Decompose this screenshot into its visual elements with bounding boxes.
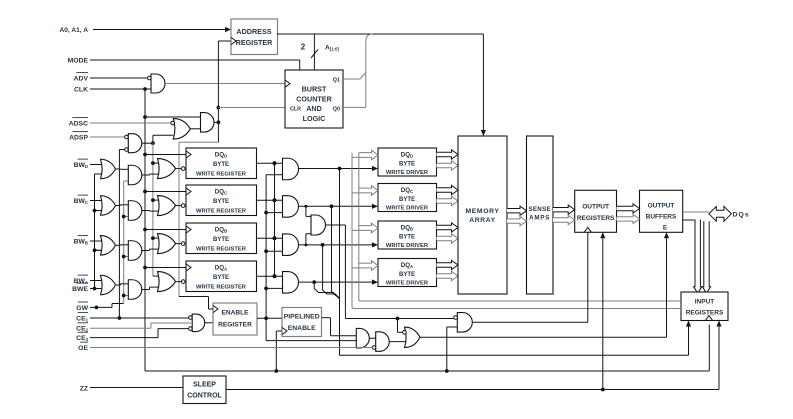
svg-text:MODE: MODE bbox=[68, 57, 89, 64]
svg-text:BYTE: BYTE bbox=[213, 199, 229, 205]
svg-text:AMPS: AMPS bbox=[529, 215, 550, 222]
svg-text:WRITE DRIVER: WRITE DRIVER bbox=[386, 281, 429, 287]
svg-text:CONTROL: CONTROL bbox=[187, 393, 222, 400]
svg-text:ADV: ADV bbox=[74, 75, 89, 82]
svg-text:DQD: DQD bbox=[401, 152, 413, 159]
svg-text:BWB: BWB bbox=[74, 238, 88, 245]
svg-text:PIPELINED: PIPELINED bbox=[284, 314, 320, 321]
svg-text:BYTE: BYTE bbox=[213, 275, 229, 281]
svg-text:CE3: CE3 bbox=[76, 335, 88, 342]
svg-text:DQC: DQC bbox=[401, 187, 414, 194]
svg-text:BYTE: BYTE bbox=[213, 162, 229, 168]
svg-text:BYTE: BYTE bbox=[213, 237, 229, 243]
svg-text:DQA: DQA bbox=[215, 265, 228, 272]
svg-text:CE1: CE1 bbox=[76, 315, 88, 322]
svg-text:Q1: Q1 bbox=[333, 78, 340, 84]
svg-text:BYTE: BYTE bbox=[399, 162, 415, 168]
svg-text:ADDRESS: ADDRESS bbox=[236, 27, 271, 36]
svg-text:OE: OE bbox=[78, 345, 88, 352]
svg-text:SENSE: SENSE bbox=[528, 206, 550, 213]
svg-text:ADSC: ADSC bbox=[69, 120, 88, 127]
svg-text:AND: AND bbox=[306, 104, 322, 113]
svg-text:BWE: BWE bbox=[72, 286, 88, 293]
svg-text:A0, A1, A: A0, A1, A bbox=[60, 27, 89, 34]
svg-text:MEMORY: MEMORY bbox=[466, 208, 500, 215]
svg-text:WRITE REGISTER: WRITE REGISTER bbox=[196, 172, 247, 178]
svg-text:CE2: CE2 bbox=[76, 326, 88, 333]
svg-text:REGISTER: REGISTER bbox=[236, 38, 274, 47]
svg-text:OUTPUT: OUTPUT bbox=[648, 202, 675, 209]
svg-text:DQB: DQB bbox=[215, 227, 227, 234]
svg-text:CLK: CLK bbox=[74, 86, 88, 93]
svg-text:WRITE DRIVER: WRITE DRIVER bbox=[386, 170, 429, 176]
svg-text:ARRAY: ARRAY bbox=[469, 217, 496, 224]
svg-text:DQC: DQC bbox=[215, 189, 228, 196]
svg-text:2: 2 bbox=[301, 43, 306, 52]
svg-text:BWA: BWA bbox=[74, 278, 88, 285]
svg-text:BURST: BURST bbox=[302, 84, 327, 93]
svg-text:REGISTER: REGISTER bbox=[218, 322, 252, 329]
svg-text:E: E bbox=[663, 225, 668, 232]
svg-text:DQD: DQD bbox=[215, 152, 227, 159]
svg-text:REGISTERS: REGISTERS bbox=[686, 310, 724, 317]
svg-text:WRITE REGISTER: WRITE REGISTER bbox=[196, 209, 247, 215]
svg-text:WRITE REGISTER: WRITE REGISTER bbox=[196, 285, 247, 291]
svg-text:BWD: BWD bbox=[74, 162, 88, 169]
svg-text:BYTE: BYTE bbox=[399, 272, 415, 278]
svg-text:BYTE: BYTE bbox=[399, 197, 415, 203]
svg-text:INPUT: INPUT bbox=[695, 298, 715, 305]
svg-text:DQB: DQB bbox=[401, 225, 413, 232]
svg-text:DQs: DQs bbox=[733, 211, 750, 218]
svg-text:BWC: BWC bbox=[74, 198, 88, 205]
svg-text:ZZ: ZZ bbox=[80, 385, 88, 392]
svg-text:WRITE REGISTER: WRITE REGISTER bbox=[196, 247, 247, 253]
svg-text:ENABLE: ENABLE bbox=[288, 325, 316, 332]
svg-text:REGISTERS: REGISTERS bbox=[577, 215, 615, 222]
svg-text:WRITE DRIVER: WRITE DRIVER bbox=[386, 206, 429, 212]
svg-text:Q0: Q0 bbox=[333, 106, 340, 112]
svg-text:BUFFERS: BUFFERS bbox=[646, 214, 677, 221]
svg-text:SLEEP: SLEEP bbox=[193, 382, 216, 389]
svg-text:CLR: CLR bbox=[290, 106, 301, 112]
svg-text:COUNTER: COUNTER bbox=[296, 94, 332, 103]
svg-text:LOGIC: LOGIC bbox=[303, 114, 326, 123]
svg-text:A[1:0]: A[1:0] bbox=[325, 45, 339, 52]
svg-text:ENABLE: ENABLE bbox=[221, 310, 249, 317]
svg-text:ADSP: ADSP bbox=[69, 134, 88, 141]
svg-text:OUTPUT: OUTPUT bbox=[582, 203, 609, 210]
svg-text:GW: GW bbox=[76, 305, 88, 312]
svg-text:BYTE: BYTE bbox=[399, 235, 415, 241]
svg-text:DQA: DQA bbox=[401, 262, 414, 269]
svg-text:WRITE DRIVER: WRITE DRIVER bbox=[386, 243, 429, 249]
